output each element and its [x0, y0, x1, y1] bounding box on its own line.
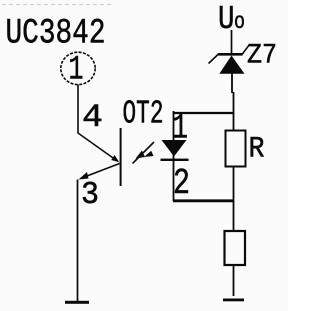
- svg-text:3: 3: [81, 178, 99, 213]
- svg-text:4: 4: [82, 99, 103, 136]
- svg-text:o: o: [234, 9, 245, 35]
- svg-text:2: 2: [173, 163, 190, 204]
- svg-text:UC3842: UC3842: [6, 14, 106, 54]
- svg-text:OT2: OT2: [123, 96, 164, 133]
- svg-text:R: R: [249, 132, 265, 166]
- svg-text:Z7: Z7: [247, 41, 277, 72]
- svg-text:1: 1: [69, 52, 84, 90]
